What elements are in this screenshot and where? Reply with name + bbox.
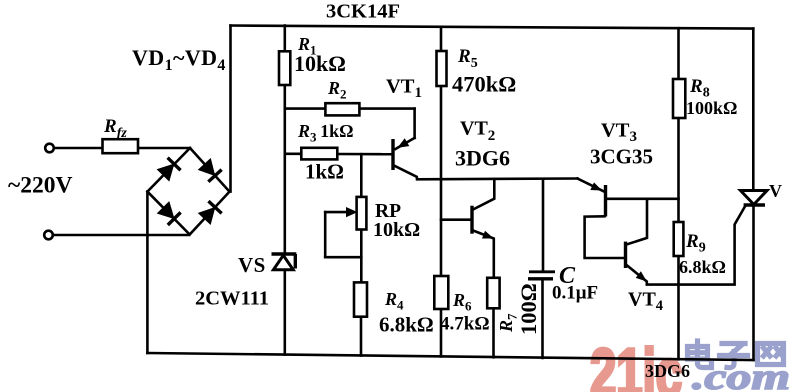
svg-text:~220V: ~220V (8, 173, 72, 199)
svg-text:.com: .com (692, 357, 790, 392)
svg-text:R5: R5 (457, 46, 478, 71)
svg-text:VT4: VT4 (628, 289, 663, 315)
svg-text:3CK14F: 3CK14F (326, 1, 400, 23)
svg-text:1kΩ: 1kΩ (305, 160, 344, 184)
svg-text:Rfz: Rfz (103, 116, 127, 141)
svg-text:100Ω: 100Ω (516, 283, 541, 335)
svg-text:6.8kΩ: 6.8kΩ (379, 313, 434, 337)
svg-text:VD1~VD4: VD1~VD4 (132, 45, 226, 74)
svg-text:3DG6: 3DG6 (455, 146, 510, 171)
svg-text:R8: R8 (689, 76, 710, 101)
svg-text:VT3: VT3 (601, 120, 637, 146)
svg-text:R9: R9 (685, 231, 706, 256)
svg-text:3CG35: 3CG35 (590, 145, 653, 169)
svg-text:3DG6: 3DG6 (645, 361, 690, 381)
svg-text:10kΩ: 10kΩ (294, 51, 346, 76)
svg-text:V: V (769, 181, 782, 201)
svg-text:VT2: VT2 (460, 118, 495, 145)
svg-text:470kΩ: 470kΩ (452, 72, 516, 97)
svg-text:R3 1kΩ: R3 1kΩ (297, 121, 354, 145)
svg-text:R4: R4 (384, 289, 404, 313)
svg-text:10kΩ: 10kΩ (373, 219, 420, 241)
svg-text:VT1: VT1 (386, 76, 422, 102)
svg-text:0.1μF: 0.1μF (552, 283, 598, 304)
svg-text:R6: R6 (452, 290, 472, 314)
svg-text:6.8kΩ: 6.8kΩ (679, 257, 726, 277)
svg-text:R2: R2 (327, 78, 347, 102)
svg-text:2CW111: 2CW111 (195, 288, 269, 310)
svg-text:100kΩ: 100kΩ (686, 98, 737, 118)
svg-text:VS: VS (238, 253, 266, 277)
svg-text:4.7kΩ: 4.7kΩ (440, 314, 490, 335)
